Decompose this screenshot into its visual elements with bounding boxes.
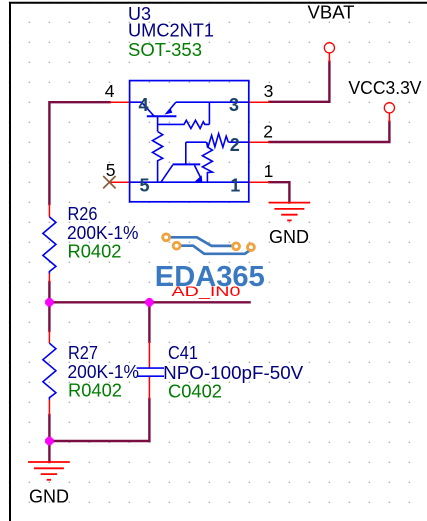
svg-text:R0402: R0402 bbox=[68, 242, 122, 262]
svg-text:4: 4 bbox=[105, 81, 115, 101]
svg-text:VCC3.3V: VCC3.3V bbox=[349, 78, 422, 98]
svg-text:VBAT: VBAT bbox=[308, 2, 355, 22]
svg-text:C41: C41 bbox=[168, 343, 198, 363]
svg-text:5: 5 bbox=[140, 175, 150, 195]
svg-text:1: 1 bbox=[230, 175, 240, 195]
svg-text:4: 4 bbox=[139, 95, 149, 115]
svg-text:2: 2 bbox=[263, 121, 273, 141]
svg-text:R26: R26 bbox=[68, 204, 98, 224]
svg-text:3: 3 bbox=[264, 81, 274, 101]
svg-text:NPO-100pF-50V: NPO-100pF-50V bbox=[163, 363, 303, 383]
svg-text:EDA365: EDA365 bbox=[155, 261, 265, 293]
svg-text:5: 5 bbox=[106, 160, 116, 180]
svg-text:GND: GND bbox=[29, 486, 69, 506]
svg-text:GND: GND bbox=[269, 227, 309, 247]
svg-text:1: 1 bbox=[264, 161, 274, 181]
svg-text:C0402: C0402 bbox=[168, 382, 222, 402]
svg-text:200K-1%: 200K-1% bbox=[67, 223, 139, 243]
svg-text:SOT-353: SOT-353 bbox=[128, 40, 202, 60]
svg-text:R27: R27 bbox=[68, 343, 98, 363]
svg-text:R0402: R0402 bbox=[68, 381, 122, 401]
svg-text:UMC2NT1: UMC2NT1 bbox=[128, 21, 214, 41]
svg-text:3: 3 bbox=[229, 95, 239, 115]
svg-text:2: 2 bbox=[230, 135, 240, 155]
svg-text:200K-1%: 200K-1% bbox=[68, 362, 140, 382]
